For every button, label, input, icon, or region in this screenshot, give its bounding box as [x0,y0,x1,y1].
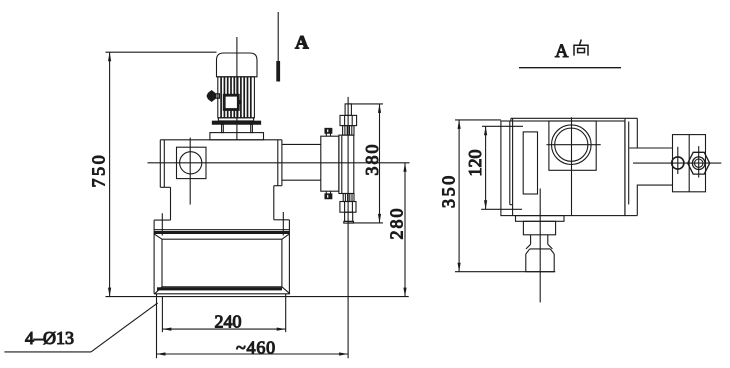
base inner box [162,239,282,287]
bearing boss [177,147,207,178]
suction valve rim [344,221,354,223]
base bottom band [157,287,282,290]
A-view circle v centerline and divider [571,117,573,215]
valve vertical centerline [347,97,349,358]
A view underline [519,67,621,69]
dim 350 ext top [455,119,501,121]
label 4-O13 leader [4,351,91,353]
svg-text:~460: ~460 [236,338,276,358]
A-view small circle [672,157,684,169]
A-view circle housing [549,121,596,170]
motor mounting plate [210,133,264,140]
head flange plate [321,136,339,191]
A-view valve step [523,221,555,235]
discharge valve stub [345,104,351,116]
svg-text:A: A [555,42,569,62]
base right edge [288,230,290,294]
A-view hex nut [688,152,710,174]
base top line [154,229,289,231]
suction valve nut [340,202,356,213]
svg-text:240: 240 [215,312,242,332]
A-view body [501,121,625,216]
dim 380 line [379,104,381,223]
base chamfers [154,234,290,294]
main horizontal centerline [148,162,410,164]
dim 350 ext bottom [455,271,555,273]
A-view circle inner [555,128,588,161]
flange bottom bolt [325,191,332,199]
svg-text:280: 280 [387,207,407,240]
discharge valve nut [340,115,357,125]
A-view right plate [625,118,637,215]
svg-text:4–Ø13: 4–Ø13 [25,328,74,348]
flange top bolt [325,128,332,136]
motor legs [222,124,224,132]
dim 120 ext bottom [481,208,522,210]
A-view valve neck [526,235,552,249]
suction valve threads [343,194,354,202]
dim 460 line [157,353,349,355]
junction box nub [238,100,241,103]
dim 240 line [162,328,285,330]
A-view circle outer [552,125,592,165]
bolt hole centerline right [282,212,284,236]
A-view valve centerline [539,189,541,303]
A-view top strip [511,118,638,121]
A-view valve block [526,249,554,272]
A view title hanzi [574,40,588,56]
head block [339,135,354,193]
A-view end block [673,135,706,192]
motor fin body [218,77,255,118]
dim 280 line [404,163,406,297]
pump body outline [160,140,282,220]
A-view left inner lines [510,118,513,215]
base left edge [153,230,155,294]
dim 120 ext top [482,125,523,127]
motor cable gland [207,91,219,102]
svg-text:350: 350 [439,173,459,208]
discharge valve threads [343,126,354,136]
dim 380 ext bottom [348,222,383,224]
motor bottom rim [218,118,253,121]
dim 240 ext right [285,294,287,332]
A-view small circle v line [677,147,679,174]
A-view hex inner circles [692,157,705,170]
motor fins [221,77,251,118]
base bottom line [154,293,290,295]
dim 350 line [458,120,460,272]
left foot [154,220,170,230]
dim 240 ext left [161,297,163,333]
motor junction box [224,95,238,109]
bolt hole centerline left [161,213,163,235]
bottom extension line [106,296,409,298]
bearing circle [180,152,202,174]
A-view circle h centerline [547,144,601,146]
A-view slot [523,132,537,194]
A-view motor cylinder [629,148,672,185]
base top band [154,231,289,234]
A-view end block divider [688,135,690,192]
dim 750 line [109,52,111,296]
A-view valve flange [516,216,565,222]
svg-text:750: 750 [88,153,108,188]
dim 120 line [485,126,487,209]
motor top cap [217,53,258,77]
right foot [274,220,290,230]
suction valve stub [345,212,353,221]
A-view main centerline [633,162,721,164]
dim 460 ext left [156,294,158,358]
view arrow A line [277,12,279,61]
dim 380 ext top [348,103,383,105]
svg-text:A: A [295,33,309,54]
A-view hex v centerline [698,146,700,178]
motor flange [212,121,260,124]
boss vertical centerline [189,138,191,205]
view arrow A head [276,61,280,82]
cylinder [282,144,321,180]
dim 750 extension top [106,51,217,53]
motor centerline [236,37,238,140]
svg-text:120: 120 [465,150,485,177]
svg-text:380: 380 [362,143,382,176]
